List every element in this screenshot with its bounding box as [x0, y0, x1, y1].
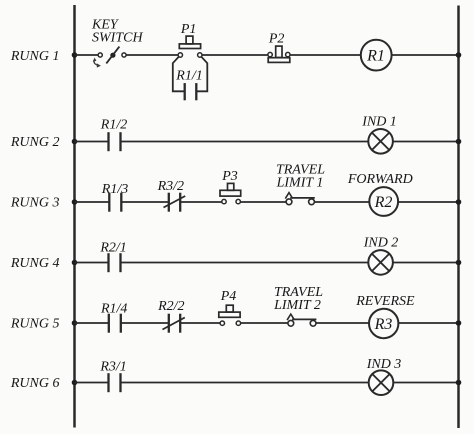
wire rung1: coil R1 to right rail — [392, 54, 459, 56]
limit switch TRAVEL LIMIT 1 — [285, 193, 315, 205]
svg-text:R1/4: R1/4 — [100, 301, 127, 316]
junction rung2 left rail — [72, 139, 78, 145]
key switch S1 — [93, 47, 126, 68]
pushbutton P1 — [178, 36, 202, 57]
junction rung6 right rail — [456, 380, 462, 386]
wire rung6: contact to lamp — [121, 382, 369, 384]
wire rung3: rail to contact R1/3 — [75, 201, 110, 203]
svg-text:LIMIT 2: LIMIT 2 — [273, 298, 321, 313]
relay coil R2 — [369, 187, 398, 216]
junction rung2 right rail — [456, 139, 462, 145]
svg-text:RUNG 5: RUNG 5 — [10, 317, 60, 332]
svg-text:RUNG 6: RUNG 6 — [10, 376, 60, 391]
junction rung4 left rail — [72, 260, 78, 266]
svg-text:R2: R2 — [374, 194, 393, 211]
contact R3/1 (NO) — [109, 373, 121, 392]
svg-text:REVERSE: REVERSE — [355, 294, 415, 309]
wire rung4: contact to lamp — [121, 262, 369, 264]
svg-text:P1: P1 — [180, 22, 197, 37]
svg-text:FORWARD: FORWARD — [347, 172, 413, 187]
wire rung3: travel limit 1 to coil R2 — [315, 201, 370, 203]
wire rung5: rail to contact R1/4 — [75, 322, 109, 324]
svg-text:R2/1: R2/1 — [99, 240, 126, 255]
svg-text:P3: P3 — [221, 169, 238, 184]
pushbutton P4 — [219, 305, 241, 325]
contact R1/2 (NO) — [109, 132, 121, 151]
indicator lamp IND 1 — [368, 129, 393, 154]
svg-text:R3/2: R3/2 — [157, 179, 184, 194]
wire branch down-right from P1 right terminal — [196, 57, 207, 92]
svg-text:IND 2: IND 2 — [363, 235, 399, 250]
contact R2/1 (NO) — [109, 253, 121, 272]
svg-text:P2: P2 — [268, 31, 285, 46]
contact R1/4 (NO) — [109, 314, 121, 333]
pushbutton P2 (normally closed) — [268, 46, 290, 62]
relay coil R3 — [369, 309, 398, 338]
label TRAVEL LIMIT 1 — [276, 162, 326, 190]
wire rung5: P4 to travel limit 2 — [241, 322, 288, 324]
wire rung1: rail to key switch — [75, 54, 99, 56]
pushbutton P3 — [220, 183, 241, 203]
wire rung3: R1/3 to R3/2 — [121, 201, 169, 203]
wire rung2: rail to contact — [75, 141, 109, 143]
junction rung3 right rail — [456, 199, 462, 205]
wire rung4: rail to contact — [75, 262, 109, 264]
label TRAVEL LIMIT 2 — [273, 285, 323, 313]
junction rung5 left rail — [72, 320, 78, 326]
wire rung1: P2 to coil R1 — [290, 54, 361, 56]
svg-text:R1/1: R1/1 — [175, 69, 202, 84]
wire rung5: travel limit 2 to coil R3 — [316, 322, 369, 324]
svg-text:R3/1: R3/1 — [99, 360, 126, 375]
svg-text:R1: R1 — [366, 48, 385, 65]
wire rung3: coil R2 to right rail — [398, 201, 458, 203]
wire rung4: lamp to right rail — [393, 262, 459, 264]
junction rung1 right rail — [456, 52, 462, 58]
junction rung1 left rail — [72, 52, 78, 58]
svg-text:RUNG 4: RUNG 4 — [10, 256, 60, 271]
wire rung1: P1 to P2 — [202, 54, 268, 56]
wire rung2: contact to lamp — [121, 141, 369, 143]
wire rung3: P3 to travel limit 1 — [240, 201, 286, 203]
wire rung5: R1/4 to R2/2 — [121, 322, 169, 324]
wire rung6: lamp to right rail — [393, 382, 458, 384]
wire branch down-left from P1 left terminal — [173, 57, 185, 92]
left power rail — [73, 5, 76, 428]
wire rung6: rail to contact — [75, 382, 109, 384]
contact R1/3 (NO) — [109, 193, 121, 212]
svg-text:RUNG 2: RUNG 2 — [10, 135, 60, 150]
svg-text:R1/2: R1/2 — [100, 118, 127, 133]
svg-text:RUNG 3: RUNG 3 — [10, 196, 60, 211]
junction rung6 left rail — [72, 380, 78, 386]
indicator lamp IND 2 — [368, 250, 393, 275]
junction rung3 left rail — [72, 199, 78, 205]
svg-text:R2/2: R2/2 — [157, 299, 184, 314]
right power rail — [457, 6, 460, 429]
relay coil R1 — [361, 40, 392, 71]
svg-text:LIMIT 1: LIMIT 1 — [276, 175, 324, 190]
wire rung1: key switch to P1 — [126, 54, 178, 56]
indicator lamp IND 3 — [369, 370, 394, 395]
wire rung5: R2/2 to P4 — [180, 322, 220, 324]
junction rung5 right rail — [456, 320, 462, 326]
junction rung4 right rail — [456, 260, 462, 266]
limit switch TRAVEL LIMIT 2 — [287, 314, 316, 326]
wire rung2: lamp to right rail — [393, 141, 459, 143]
svg-text:RUNG 1: RUNG 1 — [10, 49, 60, 64]
svg-text:IND 1: IND 1 — [361, 115, 397, 130]
contact R2/2 (NC) — [163, 314, 185, 333]
svg-text:R3: R3 — [374, 316, 393, 333]
wire rung5: coil R3 to right rail — [398, 322, 458, 324]
svg-text:R1/3: R1/3 — [101, 182, 128, 197]
label KEY SWITCH — [91, 18, 143, 46]
svg-text:SWITCH: SWITCH — [92, 31, 143, 46]
wire rung3: R3/2 to P3 — [180, 201, 222, 203]
contact R1/1 (NO, parallel with P1) — [185, 83, 197, 100]
svg-text:P4: P4 — [220, 289, 237, 304]
contact R3/2 (NC) — [164, 193, 186, 212]
